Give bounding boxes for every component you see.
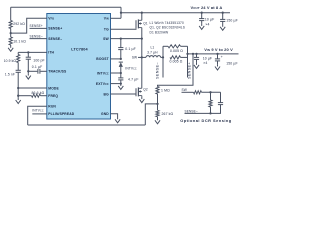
svg-text:BOOST: BOOST (96, 57, 109, 61)
wire: GND pin (111, 114, 118, 117)
svg-text:L1 Würth 7443551370: L1 Würth 7443551370 (150, 21, 184, 25)
wire: INTVCC pin (111, 72, 121, 74)
svg-text:SENSE–: SENSE– (156, 61, 160, 79)
svg-text:×4: ×4 (203, 61, 207, 65)
svg-text:10.9 kΩ: 10.9 kΩ (4, 59, 17, 63)
node: VOUT rail junction at jog (120, 12, 122, 14)
capacitor C2 150uF (VOUT bulk) (222, 12, 224, 14)
svg-text:0.1 µF: 0.1 µF (125, 47, 136, 51)
svg-text:VIN 9 V to 20 V: VIN 9 V to 20 V (204, 47, 233, 52)
svg-text:SENSE–: SENSE– (185, 109, 198, 113)
svg-text:L1: L1 (150, 46, 154, 50)
resistor R7 1M (UVLO top) (156, 87, 159, 95)
wire: divider top drop (10, 7, 12, 20)
resistor R5 0.005 ohm (top) (163, 45, 168, 47)
capacitor C1 10uF x4 (VOUT) (201, 12, 203, 14)
svg-text:0.005 Ω: 0.005 Ω (170, 59, 183, 63)
svg-text:+: + (221, 55, 223, 59)
svg-text:0.005 Ω: 0.005 Ω (170, 49, 183, 53)
wire: VIN input rail (188, 53, 239, 55)
node: inductor to left bus (162, 56, 164, 58)
capacitor C10 (DCR sense cap) (220, 92, 222, 102)
svg-text:BG: BG (104, 92, 110, 96)
svg-text:MODE: MODE (48, 86, 59, 90)
svg-text:SW: SW (103, 37, 109, 41)
svg-text:100 pF: 100 pF (33, 58, 44, 62)
wire: sense network right bus (187, 46, 189, 77)
capacitor C5 0.1uF (TRACK/SS) (40, 70, 46, 72)
wire: TG pin to Q1 gate (111, 28, 137, 29)
diode D1 bootstrap (INTVCC to BOOST) (119, 61, 123, 63)
svg-text:10 µF: 10 µF (203, 56, 212, 60)
wire: UVLO divider feed (158, 54, 194, 87)
capacitor C3 100pF (27, 52, 29, 57)
svg-text:×4: ×4 (205, 22, 209, 26)
wire: VOUT rail (121, 12, 230, 14)
svg-text:SENSE+: SENSE+ (48, 27, 62, 31)
svg-text:PLLIN/SPREAD: PLLIN/SPREAD (48, 112, 74, 116)
resistor R10 (DCR divider) (210, 92, 212, 100)
svg-text:VFB: VFB (48, 17, 54, 21)
svg-text:4.7 µF: 4.7 µF (128, 77, 139, 81)
node: boost cap top junction (120, 37, 122, 39)
svg-text:SW: SW (182, 88, 187, 92)
ground (VIN cap2) (217, 64, 219, 66)
svg-text:292 kΩ: 292 kΩ (13, 22, 25, 26)
svg-text:10.1 kΩ: 10.1 kΩ (13, 39, 26, 43)
wire: VFB route from divider midpoint (11, 18, 47, 33)
node: INTVCC junction (120, 72, 122, 74)
svg-text:150 µF: 150 µF (226, 19, 238, 23)
resistor R4 86.6k (FREQ) (18, 95, 31, 97)
schematic background (0, 0, 240, 127)
node: ITH / 100pF junction (27, 51, 29, 53)
node: rail to right bus (186, 53, 188, 55)
svg-text:RUN: RUN (48, 105, 56, 109)
op-amp U1: LTC7804 controller IC body (47, 14, 111, 120)
ground (MODE/FREQ) (17, 88, 19, 98)
svg-text:D1 B320AW: D1 B320AW (150, 30, 169, 34)
svg-text:SW: SW (132, 56, 137, 60)
resistor R9 (DCR filter) (194, 91, 202, 94)
svg-text:Optional DCR Sensing: Optional DCR Sensing (180, 118, 232, 123)
capacitor C6 0.1uF (BOOST to SW) (120, 39, 122, 48)
svg-text:SENSE+: SENSE+ (187, 62, 191, 79)
svg-text:150 µF: 150 µF (226, 61, 238, 65)
resistor R3 10.9k (ITH) (17, 52, 19, 54)
svg-text:SENSE+: SENSE+ (30, 24, 43, 28)
resistor R6 0.005 ohm (bottom) (170, 56, 181, 59)
node: Q1 drain on VOUT rail (141, 12, 143, 14)
wire: BG pin to Q2 gate (111, 93, 137, 95)
wire: RUN pin route (28, 106, 47, 125)
wire: VOUT top rail from divider to jog (11, 6, 121, 8)
transistor Q2 (bottom NMOS) (135, 88, 137, 96)
ground (GND pin) (117, 117, 119, 119)
svg-text:ITH: ITH (48, 51, 54, 55)
node: SW switch-node junction (141, 37, 143, 39)
svg-text:TG: TG (104, 27, 109, 31)
svg-text:Q2: Q2 (143, 88, 148, 92)
svg-text:1 MΩ: 1 MΩ (161, 89, 170, 93)
ground (UVLO divider) (157, 117, 159, 118)
svg-text:INTVCC: INTVCC (97, 71, 109, 75)
wire: RUN UVLO bottom run (28, 124, 146, 126)
svg-text:0.1 µF: 0.1 µF (32, 65, 43, 69)
wire: UVLO riser to divider tap (145, 104, 157, 125)
svg-text:LTC7804: LTC7804 (71, 47, 88, 51)
svg-text:GND: GND (101, 112, 109, 116)
node: DCR filter junction (209, 91, 211, 93)
node: DCR bottom junction (209, 112, 211, 114)
ground (INTVCC cap) (120, 84, 122, 86)
capacitor C7 4.7uF (INTVCC) (120, 73, 122, 78)
resistor R8 267k (UVLO bottom) (156, 110, 159, 117)
svg-text:Q1: Q1 (143, 22, 148, 26)
wire: SW pin to switch node (111, 38, 142, 40)
node: inductor / switch node junction (141, 56, 143, 58)
node: UVLO divider tap (156, 103, 158, 105)
resistor R2 10.1k (9, 37, 12, 45)
svg-text:86.6 kΩ: 86.6 kΩ (32, 91, 45, 95)
svg-text:SENSE–: SENSE– (48, 37, 62, 41)
wire: MODE pin to ground column (18, 87, 47, 89)
wire: sense network left bus (162, 46, 164, 77)
node: FREQ junction (17, 95, 19, 97)
node: UVLO divider feed junction (192, 53, 194, 55)
svg-text:1.5 nF: 1.5 nF (5, 73, 15, 77)
svg-text:10 µF: 10 µF (205, 18, 214, 22)
wire: VIN pin to VOUT rail (111, 17, 122, 19)
ground (SS cap / 100pF) (27, 71, 29, 73)
wire: BOOST pin (111, 58, 121, 60)
node: BOOST junction (120, 58, 122, 60)
capacitor C9 150uF (VIN bulk) (216, 53, 218, 55)
svg-text:EXTVCC: EXTVCC (96, 82, 109, 86)
ground (VOUT cap1) (201, 24, 203, 26)
svg-text:VIN: VIN (104, 17, 109, 21)
svg-text:VOUT 24 V at 8 A: VOUT 24 V at 8 A (191, 5, 223, 10)
resistor R1 292k (9, 21, 12, 29)
node A: feedback divider midpoint (10, 29, 12, 38)
ground (VOUT cap2) (222, 25, 224, 27)
svg-text:TRACK/SS: TRACK/SS (48, 70, 67, 74)
ground (Q2 source) (141, 96, 143, 97)
svg-text:267 kΩ: 267 kΩ (162, 112, 174, 116)
svg-text:3.7 µH: 3.7 µH (147, 51, 158, 55)
ground (VIN cap1) (196, 63, 198, 65)
svg-text:Q1, Q2 BSC032N04LS: Q1, Q2 BSC032N04LS (150, 26, 185, 30)
wire: ITH pin to compensation network (18, 51, 47, 53)
node: EXTVCC/cap ground junction (120, 82, 122, 84)
wire: INTVCC flag to PLLIN/SPREAD pin (32, 113, 47, 115)
svg-text:FREQ: FREQ (48, 94, 58, 98)
node: SS/100pF ground junction (27, 70, 29, 72)
wire: switch node vertical (141, 39, 143, 89)
wire: EXTVCC pin to ground node (111, 83, 121, 85)
inductor L1 3.7uH (142, 56, 146, 58)
svg-text:SENSE–: SENSE– (30, 34, 43, 38)
ground (below feedback divider) (10, 44, 12, 47)
capacitor C4 1.5nF (ITH) (17, 63, 19, 71)
wire: rail jog down to VOUT rail level (120, 7, 122, 18)
transistor Q1 (top NMOS) (141, 13, 143, 21)
capacitor C8 10uF x4 (VIN) (195, 53, 197, 55)
node: MODE junction (17, 87, 19, 89)
